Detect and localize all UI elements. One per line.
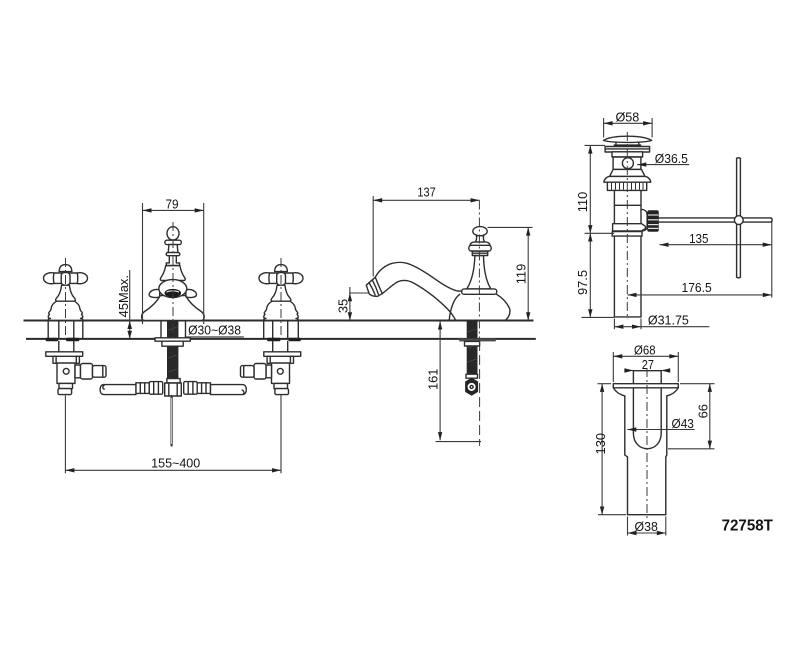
drain centerline [626,132,628,319]
side view cap [470,242,490,245]
svg-text:79: 79 [165,197,178,212]
lift rod [736,158,738,277]
svg-text:97.5: 97.5 [575,270,590,295]
dimension 97.5 [575,233,614,317]
dimension 66 [668,384,715,449]
spout front: aerator dark ellipse [165,289,182,297]
left cross handle [44,265,88,321]
svg-text:161: 161 [426,369,441,391]
side view finial ball [473,227,487,236]
bracket flange [46,352,83,357]
dimension 110 [575,145,614,233]
dimension 79 [143,197,204,324]
spout front: collar discs [165,240,181,244]
dimension Ø43 leader [627,416,694,432]
dimension 35 [335,287,369,321]
svg-text:Ø43: Ø43 [672,416,694,431]
screws [53,356,56,363]
side view rings [472,251,487,256]
tailpiece inner tube with U bottom [633,371,661,449]
svg-text:119: 119 [514,264,529,285]
spout front view centerline [172,222,174,338]
spout shank nut [162,341,183,346]
drain flange plate [605,147,650,153]
side supply hex (end-on) [465,378,478,396]
dimension Ø38 [628,517,666,536]
dimension Ø31.75 [614,313,709,330]
rod ball joint [734,216,743,225]
svg-text:176.5: 176.5 [682,280,712,295]
tailpiece lower tube [627,457,629,515]
spout deck hole edges [160,322,162,338]
right hex nut on tee [184,382,198,395]
drain pop-up dome [604,136,652,142]
left hex nut on tee [149,382,163,395]
drain tailpiece tube [613,190,615,317]
left valve through-deck and under-deck assembly [46,322,106,395]
side shank threads [467,321,478,377]
dimension 155~400 [65,395,281,474]
bottom nut [58,389,72,395]
svg-text:35: 35 [335,299,350,313]
side view base plate [462,289,497,294]
side view centerline [478,201,480,340]
tailpiece detail centerline [646,368,648,521]
dimension 161 [426,321,481,441]
countertop bottom line [26,338,536,340]
svg-text:137: 137 [417,185,435,200]
side view trumpet column [467,256,491,290]
wing nut [46,338,59,342]
pivot knurled nut [647,210,659,232]
spout shank washer [155,338,190,341]
side shank nut [465,341,480,346]
svg-text:Ø36.5: Ø36.5 [655,151,688,166]
right ferrule rings [197,383,210,394]
tailpiece body bottom step [625,455,628,457]
drain body with hole [613,157,641,169]
right valve assembly (mirrored) [241,322,301,395]
drain locknut [607,182,646,190]
svg-text:130: 130 [593,433,608,455]
svg-text:Ø68: Ø68 [634,343,656,358]
drain dome neck [615,142,617,144]
shank [58,341,60,352]
drain dome flange [604,176,651,182]
spout front: side wings [149,289,160,297]
drain upper body [612,152,643,157]
spout arm bottom edge [382,280,455,320]
tee body [165,383,182,396]
countertop top line [24,320,534,322]
spout front: horn [159,280,187,298]
dimension 45Max. [116,270,132,339]
svg-text:Ø38: Ø38 [635,519,658,534]
dimension 27 [624,357,670,373]
label Ø30~Ø38 [185,322,244,337]
dimension Ø58 [604,110,653,138]
tailpiece collar [613,224,646,231]
tailpiece shoulders [613,388,625,396]
pivot rod [659,217,771,219]
side view waist [475,236,484,242]
side view base dome left edge [449,294,460,320]
pivot housing [641,209,647,231]
spout front: finial ball [167,227,179,240]
left handle centerline [65,258,67,341]
dimension 135 [660,231,772,247]
right handle centerline [280,258,282,341]
tailpiece body [624,396,626,455]
valve body [57,363,75,383]
drain body flare [610,169,645,176]
tee top nut [167,379,180,383]
dimension 130 [593,384,626,515]
spout tip aerator block [366,277,382,296]
spout threaded shank [167,321,178,379]
dimension 119 [488,227,533,320]
side view cap plate [469,245,491,251]
pop-up rod [171,396,173,446]
left ferrule rings [136,383,149,394]
right supply pipe [211,385,247,395]
svg-text:Ø58: Ø58 [615,110,639,125]
side shank washer [459,338,496,341]
svg-text:45Max.: 45Max. [116,275,131,317]
side view base dome right edge [497,294,510,320]
left supply pipe [100,385,136,395]
deck hole lines [47,322,49,338]
dimension 137 [373,185,479,277]
svg-text:27: 27 [642,357,654,372]
dimension 176.5 [628,223,772,298]
dimension Ø68 [613,343,678,382]
svg-text:72758T: 72758T [722,518,774,535]
svg-text:Ø31.75: Ø31.75 [648,313,689,328]
spout front: upper bell [160,266,185,281]
svg-text:110: 110 [575,192,590,213]
side port fitting [75,365,81,378]
dimension Ø36.5 leader [637,151,689,167]
spout arm top edge [375,262,462,291]
spout front: neck [166,256,179,266]
tailpiece ring [612,232,642,237]
svg-text:66: 66 [696,404,711,418]
svg-text:135: 135 [689,231,708,246]
spout front: base skirt [142,296,205,321]
side clamp top [466,374,478,378]
bottom step [59,383,73,388]
right cross handle [259,265,303,321]
svg-text:155~400: 155~400 [151,455,200,470]
tailpiece flange [613,384,678,388]
svg-text:Ø30~Ø38: Ø30~Ø38 [188,322,241,337]
